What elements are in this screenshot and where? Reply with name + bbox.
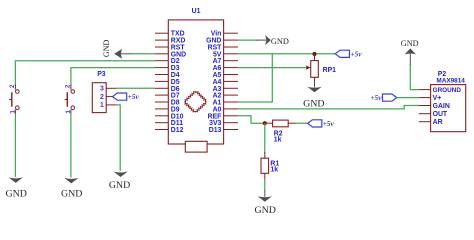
junction dot R1/R2 [263,121,267,125]
svg-text:1: 1 [100,102,104,109]
svg-text:+5v: +5v [370,93,382,102]
wire junction to R1 [264,123,266,153]
svg-text:GND: GND [61,189,82,200]
wire REF to junction [238,116,265,123]
svg-text:1: 1 [9,110,16,114]
ground P2 (up arrow) [401,39,419,54]
wire D3 [71,68,155,86]
wire S2 to ground [70,114,72,178]
svg-text:U1: U1 [192,8,201,15]
U1 left pin names [171,31,186,134]
ground right arrow [256,35,289,46]
wire A6 to RP1 wiper [238,67,307,69]
module P2 MAX9814 [419,71,466,132]
resistor R2 [265,120,296,143]
svg-text:+5v: +5v [128,92,140,101]
U1 USB connector [185,141,207,152]
connector P3 [92,71,116,112]
wire P2 GROUND to ground [410,65,419,90]
svg-text:GND: GND [102,40,111,58]
potentiometer RP1 [306,54,336,82]
+5v flag P2 V+ [370,93,396,102]
ground RP1 [303,87,324,110]
resistor R1 [261,152,279,180]
svg-text:3: 3 [100,86,104,93]
switch S1 [9,84,19,114]
wire 5V [238,53,335,55]
+5v flag on 5V line [335,49,362,58]
ground 1 [5,177,26,199]
svg-text:D13: D13 [209,127,222,134]
svg-text:OUT: OUT [433,111,448,118]
svg-text:1k: 1k [274,137,282,144]
U1 right pin names [206,31,222,134]
wire GND right [238,39,257,41]
svg-text:GROUND: GROUND [433,87,462,94]
svg-text:P3: P3 [97,71,106,78]
svg-text:1: 1 [65,110,72,114]
svg-text:MAX9814: MAX9814 [436,77,465,84]
wire P3 pin1 to ground [116,105,120,171]
wire A1 to 5V [238,54,272,102]
svg-text:GAIN: GAIN [433,103,450,110]
svg-text:1k: 1k [270,167,278,174]
switch S2 [65,84,75,114]
svg-text:2: 2 [100,94,104,101]
ground R1 [254,196,275,216]
svg-text:GND: GND [401,39,419,48]
svg-text:2: 2 [65,84,72,88]
ground 2 [61,178,82,200]
wire S1 to ground [14,114,16,178]
svg-text:V+: V+ [433,95,442,102]
wire RP1 to ground [314,82,316,88]
U1 diamond logo [184,91,207,113]
junction dot 5V/RP1 [312,52,316,56]
ground 3 [109,172,130,191]
wire +5v to V+ [397,97,419,99]
wire R1 to ground [264,179,266,191]
+5v flag R2 [308,119,335,128]
svg-text:GND: GND [109,180,130,191]
wire R2 to +5v [296,122,308,124]
svg-text:AR: AR [433,119,443,126]
wire A0 to P2 GAIN [238,106,419,109]
svg-text:RP1: RP1 [323,67,337,74]
U1 left pin stubs [155,33,168,129]
svg-text:GND: GND [5,188,26,199]
svg-text:+5v: +5v [350,49,362,58]
wire D2 [15,61,155,86]
svg-text:D12: D12 [171,127,184,134]
op-amp U1 [168,8,223,144]
svg-text:GND: GND [303,98,324,109]
wire P3 pin3 to D6 [116,87,155,89]
U1 right pin stubs [224,33,238,129]
wire GND left [131,53,155,55]
ground left arrow [102,40,132,59]
svg-text:2: 2 [9,84,16,88]
svg-text:GND: GND [271,37,289,46]
svg-text:GND: GND [254,205,275,216]
+5v flag P3 pin2 [113,92,140,101]
svg-text:+5v: +5v [323,119,335,128]
